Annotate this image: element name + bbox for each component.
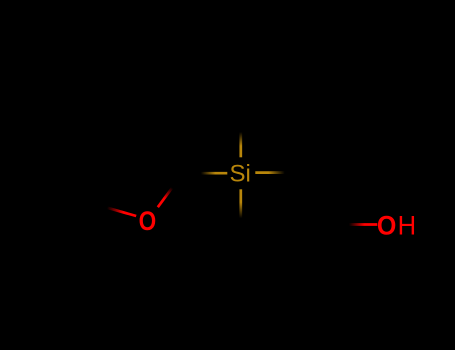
svg-text:O: O [377,211,397,241]
wire CH2-OH (methylene to hydroxyl oxygen) [349,223,377,226]
wire Si-CH2 (silicon to right methylene) [255,171,284,174]
svg-text:O: O [139,206,157,236]
wire Si-CH3 (top methyl) [239,132,242,157]
wire Si-CH3 (bottom methyl) [239,189,242,218]
wire CH2-CH2 (carbon-carbon bond, black on black background) [300,173,334,225]
wire CH2-Si (methylene to silicon) [201,172,227,175]
wire O-CH2 (ether oxygen to methylene) [158,188,172,208]
svg-text:H: H [398,211,417,241]
wire CH3-O (methoxy methyl to ether oxygen) [107,208,136,216]
svg-text:Si: Si [230,161,251,188]
